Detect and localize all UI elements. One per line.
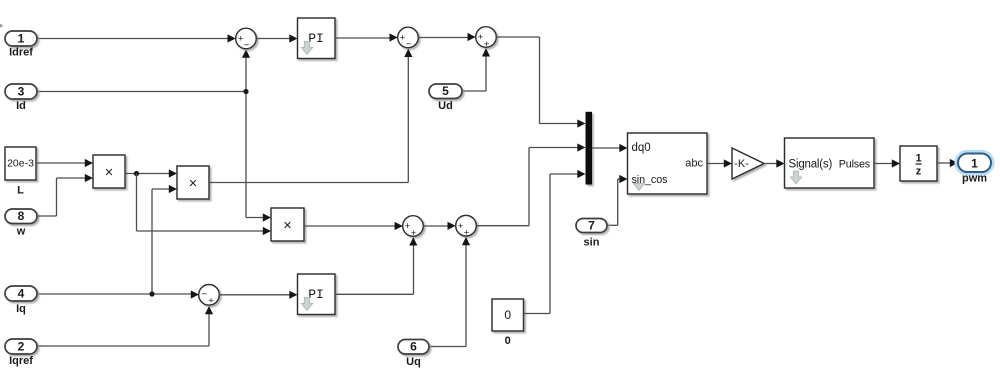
gain block -K- — [732, 148, 764, 179]
svg-text:dq0: dq0 — [632, 142, 651, 154]
wire Iqref to Sum4 bottom — [37, 306, 213, 346]
wire mult1 out to junction to mult2 input1 — [125, 169, 177, 177]
wire L to mult1 input1 — [36, 159, 93, 167]
svg-text:5: 5 — [442, 84, 449, 98]
svg-text:×: × — [283, 218, 291, 234]
svg-text:Uq: Uq — [406, 356, 421, 368]
svg-text:pwm: pwm — [962, 173, 987, 185]
svg-text:L: L — [17, 185, 24, 197]
product block mult1 — [93, 155, 125, 188]
wire Iq to junction to Sum4 — [37, 290, 199, 298]
wire Sum2 to Sum3 — [418, 33, 475, 41]
svg-text:+: + — [208, 295, 214, 306]
svg-text:1: 1 — [971, 157, 978, 171]
sum S3 — [476, 27, 497, 50]
product block mult3 — [271, 208, 304, 241]
svg-text:abc: abc — [685, 157, 703, 169]
wire w to mult1 input2 — [37, 174, 93, 216]
wire Ud to Sum3 bottom — [462, 48, 490, 91]
canvas-edge fragment top-left — [0, 24, 3, 28]
output port 1 (pwm), selected — [956, 152, 993, 175]
svg-text:Id: Id — [16, 100, 26, 112]
wire SumB to mux input 2 — [476, 143, 585, 225]
wire Sum3 to mux input 1 — [496, 37, 585, 128]
svg-text:0: 0 — [504, 308, 511, 322]
svg-text:6: 6 — [410, 340, 417, 354]
svg-text:×: × — [189, 176, 197, 192]
sum S1 (Idref - Id) — [236, 28, 257, 51]
wire mux to dq0 input — [592, 144, 628, 152]
svg-text:−: − — [244, 40, 250, 51]
svg-text:1: 1 — [915, 153, 921, 165]
svg-text:8: 8 — [18, 209, 25, 223]
svg-text:Pulses: Pulses — [839, 158, 871, 170]
input port 7 (sin) — [576, 219, 607, 233]
input port 6 (Uq) — [398, 340, 429, 355]
PI controller PI1 — [298, 18, 336, 59]
junction dot on Id wire — [243, 89, 248, 94]
svg-text:0: 0 — [505, 335, 511, 347]
wire PI1 to Sum2 — [335, 33, 398, 41]
constant block 0 — [492, 299, 524, 331]
svg-text:+: + — [484, 39, 490, 50]
wire Sum1 to PI1 — [256, 34, 297, 42]
wire pulses to unit delay — [874, 159, 900, 167]
svg-text:3: 3 — [18, 85, 25, 99]
svg-text:Signal(s): Signal(s) — [789, 158, 833, 170]
wire mult1 junction down to mult3 input2 — [137, 174, 272, 236]
PI controller PI2 — [298, 274, 336, 315]
wire gain to pulse generator — [764, 159, 785, 167]
svg-text:−: − — [406, 39, 412, 50]
svg-text:Ud: Ud — [438, 100, 453, 112]
mux block — [586, 112, 593, 185]
wire mult3 out to SumA — [304, 222, 403, 230]
wire Idref to Sum1 — [37, 34, 236, 42]
input port 4 (Iq) — [5, 286, 37, 301]
input port 1 (Idref) — [5, 31, 37, 46]
svg-text:+: + — [411, 228, 417, 239]
svg-text:2: 2 — [18, 340, 25, 354]
wire Iq junction up to mult2 input2 — [152, 185, 177, 294]
wire PI2 to SumA bottom — [335, 237, 417, 294]
wire mult2 out to Sum2 bottom — [209, 49, 412, 183]
svg-text:1: 1 — [18, 32, 25, 46]
svg-text:×: × — [105, 165, 113, 181]
svg-text:-K-: -K- — [734, 158, 749, 170]
wire Uq to SumB bottom — [429, 237, 471, 347]
svg-text:+: + — [464, 228, 470, 239]
wire unit delay to pwm port — [937, 159, 958, 167]
junction dot on mult1 output — [134, 171, 139, 176]
input port 8 (w) — [5, 209, 37, 224]
wire Sum4 to PI2 — [219, 291, 297, 299]
constant block 20e-3 — [5, 147, 36, 180]
svg-text:Iqref: Iqref — [9, 355, 33, 367]
dq0-to-abc transform block U1 — [628, 133, 708, 194]
sum S2 — [398, 27, 419, 50]
wire SumA to SumB — [423, 222, 455, 230]
wire const0 to mux input 3 — [524, 170, 586, 314]
svg-text:−: − — [201, 289, 207, 300]
input port 5 (Ud) — [429, 84, 462, 99]
wire dq0 abc to gain — [707, 159, 732, 167]
svg-text:w: w — [16, 226, 26, 238]
svg-text:20e-3: 20e-3 — [7, 158, 34, 170]
unit delay block 1/z — [900, 146, 937, 181]
svg-text:7: 7 — [588, 219, 595, 233]
pulse generator block Signal(s)/Pulses — [785, 138, 875, 188]
svg-text:PI: PI — [308, 287, 324, 302]
svg-text:Idref: Idref — [9, 47, 33, 59]
sum SA (q axis) — [403, 216, 424, 239]
svg-text:Iq: Iq — [16, 303, 26, 315]
svg-text:PI: PI — [308, 31, 324, 46]
input port 3 (Id) — [5, 84, 37, 99]
wire Id to junction and Sum1 and mult3 — [37, 50, 271, 222]
sum SB (q axis) — [456, 215, 477, 238]
product block mult2 — [177, 166, 209, 199]
svg-text:sin: sin — [584, 237, 600, 249]
svg-text:z: z — [916, 166, 922, 178]
wire sin to dq0 sin_cos input — [607, 175, 628, 225]
svg-text:4: 4 — [18, 287, 25, 301]
input port 2 (Iqref) — [5, 339, 37, 354]
sum S4 (q axis error) — [199, 285, 220, 307]
junction dot on Iq wire — [149, 291, 154, 296]
